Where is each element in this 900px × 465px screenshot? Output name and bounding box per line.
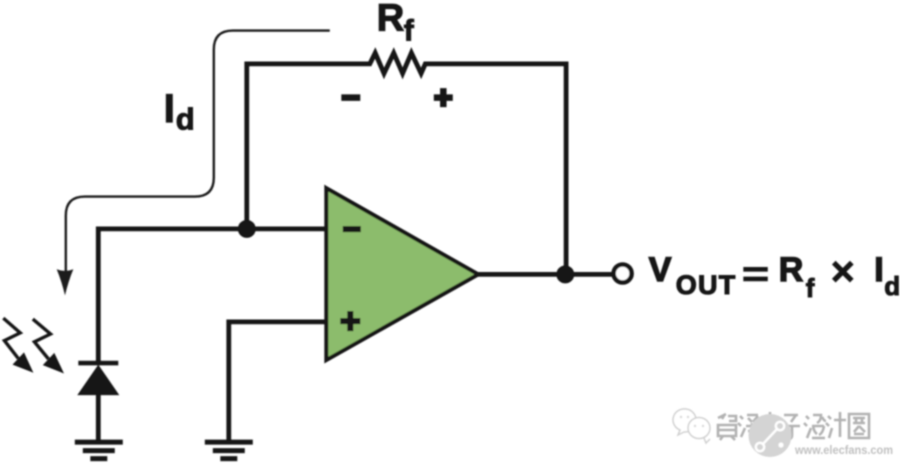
svg-text:R: R	[377, 0, 404, 40]
svg-text:d: d	[884, 271, 900, 301]
svg-text:d: d	[176, 102, 195, 137]
svg-text:I: I	[874, 251, 883, 289]
svg-text:OUT: OUT	[676, 270, 737, 300]
svg-text:www.elecfans.com: www.elecfans.com	[794, 443, 893, 457]
svg-text:V: V	[649, 251, 672, 289]
svg-text:f: f	[404, 15, 415, 48]
svg-text:R: R	[779, 251, 804, 289]
svg-text:f: f	[806, 273, 815, 303]
svg-text:I: I	[164, 87, 175, 131]
